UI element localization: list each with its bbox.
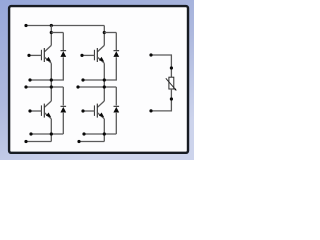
node thermistor pin 1 [170, 66, 173, 69]
transistor Q4 body bar [96, 104, 98, 118]
wire D4 anode vertical [115, 113, 117, 134]
gradient backdrop [0, 0, 194, 160]
transistor Q3 emitter arrow [46, 113, 51, 118]
wire collector lead Q3 [45, 101, 52, 107]
thermistor R1 body [169, 77, 174, 89]
wire emitter diagonal Q1 [44, 57, 51, 63]
panel background [9, 6, 188, 153]
transistor Q2 gate bar [93, 50, 95, 61]
diode D3 triangle [60, 107, 66, 113]
transistor Q3 body bar [43, 104, 45, 118]
wire D1 cathode vertical [62, 33, 64, 51]
wire phase main right [78, 86, 116, 88]
wire Q3 emitter vertical [50, 119, 52, 142]
diode D2 cathode bar [114, 50, 120, 52]
terminal DC+ [24, 24, 27, 27]
node Q4 emitter [103, 132, 106, 135]
wire phase aux lead right [83, 79, 104, 81]
wire gate lead Q3 [30, 110, 41, 112]
wire Q4 emitter vertical [103, 119, 105, 142]
terminal emitter aux left [29, 132, 32, 135]
transistor Q4 emitter arrow [99, 113, 104, 118]
wire D3 cathode vertical [62, 87, 64, 105]
wire gate lead Q1 [29, 54, 41, 56]
node bus tap left [50, 24, 53, 27]
thermistor R1 diagonal [166, 78, 176, 90]
thermistor R1 arrow tip [174, 88, 176, 90]
diode D1 triangle [60, 51, 66, 57]
gate terminal Q1 [27, 54, 30, 57]
wire gate lead Q4 [83, 110, 94, 112]
node D2 branch [103, 31, 106, 34]
terminal DC- right [77, 140, 80, 143]
terminal phase aux right [81, 78, 84, 81]
diode D4 triangle [113, 107, 119, 113]
transistor Q2 body bar [96, 48, 98, 62]
diode D3 cathode bar [61, 105, 67, 107]
transistor Q3 gate bar [40, 105, 42, 116]
node phase left [50, 85, 53, 88]
node phase right [103, 85, 106, 88]
wire emitter aux bus right [84, 133, 116, 135]
node thermistor pin 2 [170, 97, 173, 100]
terminal DC- left [24, 140, 27, 143]
terminal thermistor bottom [149, 109, 152, 112]
terminal phase main right [76, 85, 79, 88]
wire Q2 collector vertical [103, 26, 105, 46]
node D1 branch [50, 31, 53, 34]
terminal thermistor top [149, 53, 152, 56]
transistor Q1 gate bar [40, 50, 42, 61]
diode D1 cathode bar [61, 50, 67, 52]
node Q1 emitter / y80 [50, 78, 53, 81]
wire thermistor bottom lead [151, 89, 171, 111]
wire emitter diagonal Q3 [44, 113, 51, 119]
wire D2 anode vertical [104, 57, 116, 80]
wire DC- lead right [79, 141, 104, 143]
wire emitter diagonal Q4 [97, 113, 104, 119]
wire emitter diagonal Q2 [97, 57, 104, 63]
terminal phase main left [24, 85, 27, 88]
transistor Q1 emitter arrow [46, 57, 51, 62]
wire Q1 emitter vertical [50, 63, 52, 101]
wire D3 anode vertical [62, 113, 64, 134]
wire DC+ bus [26, 25, 104, 27]
wire phase main left [26, 86, 63, 88]
wire D2 branch horizontal [104, 32, 116, 34]
gate terminal Q2 [80, 54, 83, 57]
transistor Q1 body bar [43, 48, 45, 62]
wire collector lead Q4 [98, 101, 105, 107]
wire thermistor top lead [151, 55, 171, 77]
wire DC- lead left [26, 141, 51, 143]
diode D4 cathode bar [114, 105, 120, 107]
node Q3 emitter [50, 132, 53, 135]
wire D1 anode vertical [51, 57, 63, 80]
gate terminal Q4 [81, 109, 84, 112]
wire gate lead Q2 [82, 54, 94, 56]
wire Q2 emitter vertical [103, 63, 105, 101]
wire phase aux lead left [30, 79, 51, 81]
gate terminal Q3 [28, 109, 31, 112]
terminal emitter aux right [82, 132, 85, 135]
wire Q1 collector vertical [50, 26, 52, 46]
transistor Q4 gate bar [93, 105, 95, 116]
node Q2 emitter / y80 [103, 78, 106, 81]
diode D2 triangle [113, 51, 119, 57]
wire D4 cathode vertical [115, 87, 117, 105]
wire D1 branch horizontal [51, 32, 63, 34]
terminal phase aux left [28, 78, 31, 81]
wire collector lead Q1 [45, 45, 52, 51]
wire D2 cathode vertical [115, 33, 117, 51]
wire emitter aux bus left [31, 133, 63, 135]
wire collector lead Q2 [98, 45, 105, 51]
transistor Q2 emitter arrow [99, 57, 104, 62]
